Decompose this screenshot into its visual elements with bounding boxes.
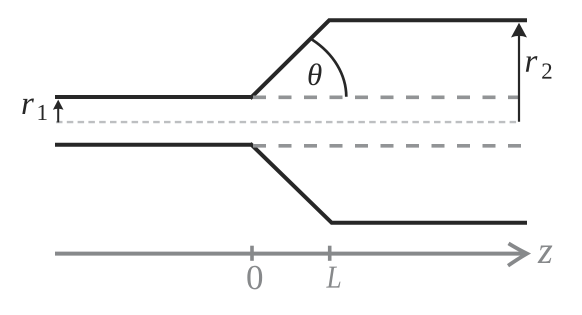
label z	[538, 246, 553, 263]
node: upper dashed extension of narrow tube top wall	[253, 96, 520, 100]
tick L	[328, 246, 332, 261]
z axis arrowhead	[508, 243, 527, 265]
wire: narrow tube bottom wall	[55, 143, 252, 147]
wire: bottom flare diagonal and wide-section bottom wall	[250, 144, 527, 223]
node: lower dashed extension of narrow tube bottom wall	[253, 144, 522, 148]
arrow r2 head	[511, 23, 527, 38]
tick 0	[250, 246, 254, 261]
wire: narrow tube top wall	[55, 95, 252, 99]
angle arc theta	[312, 40, 346, 97]
wire: top flare diagonal and wide-section top wall	[250, 20, 527, 98]
arrow r2 stem	[518, 30, 520, 122]
label r2	[526, 56, 538, 72]
label r1	[22, 98, 34, 114]
label L	[326, 267, 340, 288]
z axis line	[55, 252, 523, 256]
label theta	[309, 63, 322, 85]
arrow r1 stem	[57, 105, 59, 122]
label 0	[247, 266, 262, 290]
arrow r1 head	[53, 100, 64, 110]
node: center axis fine dashed line	[56, 121, 519, 123]
